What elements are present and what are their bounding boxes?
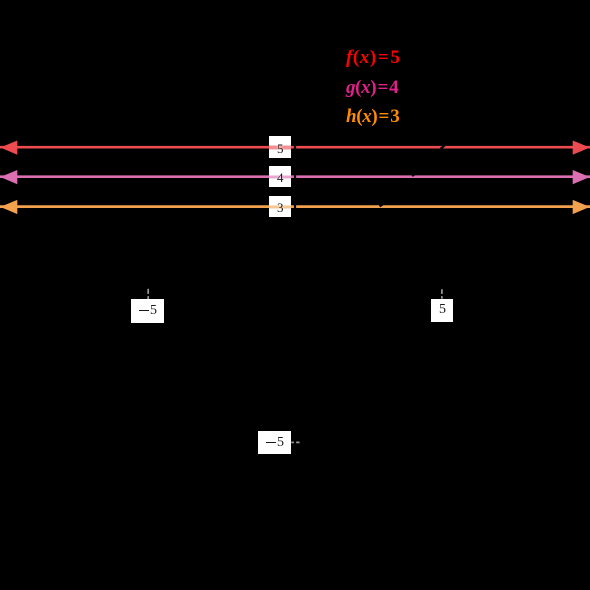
arrowhead right g [573,170,590,184]
arrowhead left h [0,200,17,214]
y tick label 5 text [277,142,284,155]
x tick label -5 box [131,299,164,323]
line f(x)=5 [0,146,590,149]
arrowhead right f [573,141,590,155]
x-axis tick at 5 [441,289,443,299]
y-axis (black, visible only as notches over lines/ticks) [294,0,296,590]
y tick label -5 text [266,436,284,450]
y tick label 4 text [277,171,284,184]
legend label f(x)=5 [346,48,401,67]
line f overlay band in box [269,145,291,149]
y-axis tick at -5 [291,441,299,443]
line g(x)=4 [0,175,590,178]
line h(x)=3 [0,205,590,208]
point mark on f at (5,5) [441,145,445,148]
x-axis tick at -5 [147,289,149,300]
y tick label -5 box [258,431,291,454]
y tick label 5 box [269,136,291,157]
line g overlay band in box [269,175,291,179]
x tick label -5 text [139,304,157,318]
legend label h(x)=3 [346,107,399,126]
line h overlay band in box [269,205,291,209]
legend label g(x)=4 [346,78,398,97]
arrowhead left f [0,141,17,155]
x-axis (black, visible only as gaps over ticks) [0,294,590,296]
x tick label 5 text [439,303,446,317]
y tick label 4 box [269,166,291,187]
y tick label 3 text [277,201,284,214]
point mark on h at (3,3) [380,204,384,207]
arrowhead right h [573,200,590,214]
y tick label 3 box [269,196,291,217]
arrowhead left g [0,170,17,184]
x tick label 5 box [431,299,453,322]
point mark on g at (4,4) [412,173,416,176]
